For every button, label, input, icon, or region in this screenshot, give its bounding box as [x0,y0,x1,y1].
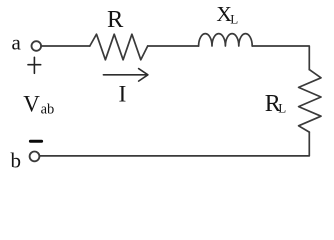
svg-text:V: V [23,91,40,116]
svg-text:b: b [11,149,22,173]
svg-text:I: I [119,81,127,107]
svg-text:L: L [230,12,238,27]
svg-text:L: L [278,100,286,115]
svg-text:a: a [12,31,22,55]
svg-text:ab: ab [41,101,55,117]
svg-text:R: R [107,6,124,33]
